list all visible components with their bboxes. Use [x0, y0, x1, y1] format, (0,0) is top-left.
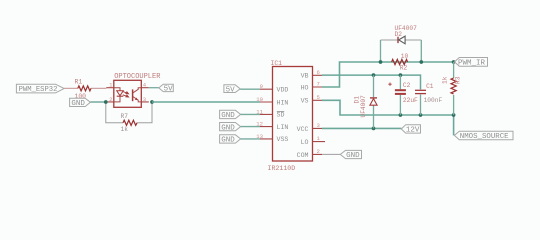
svg-text:GND: GND — [346, 152, 360, 160]
svg-text:LIN: LIN — [277, 124, 289, 131]
svg-text:100nF: 100nF — [424, 97, 443, 104]
wire D2 loop verticals — [381, 40, 422, 62]
svg-text:1k: 1k — [121, 126, 129, 133]
overline SD — [277, 111, 284, 113]
resistor R2 — [392, 53, 409, 72]
optocoupler light arrows — [123, 92, 129, 97]
op IC1 right pin stubs — [313, 75, 326, 154]
svg-text:R1: R1 — [75, 79, 83, 86]
junction gate row D2 right — [419, 60, 423, 64]
svg-text:C1: C1 — [426, 83, 434, 90]
svg-text:2: 2 — [317, 148, 320, 155]
svg-text:2: 2 — [109, 96, 112, 103]
svg-text:R7: R7 — [121, 113, 129, 120]
svg-text:5V: 5V — [226, 86, 236, 94]
ground GND flag at SD — [220, 110, 241, 120]
wire VCC 12V row — [322, 127, 401, 129]
junction VB C2 — [399, 73, 403, 77]
svg-text:HO: HO — [301, 84, 309, 91]
junction opto pin2 node — [104, 100, 108, 104]
wire HO to gate row — [322, 62, 455, 87]
svg-text:COM: COM — [297, 152, 309, 159]
svg-text:13: 13 — [256, 133, 263, 140]
ground GND flag left — [70, 98, 91, 108]
resistor R3 — [441, 76, 461, 94]
wire GND to SD — [241, 113, 260, 115]
wire COM to GND — [322, 153, 340, 155]
svg-text:SD: SD — [277, 112, 285, 119]
junction bus C1 — [419, 113, 423, 117]
wire D2 top — [381, 39, 422, 41]
svg-text:VS: VS — [301, 98, 309, 105]
ground GND flag at LIN — [220, 123, 241, 133]
wire opto pin3 to HIN — [152, 101, 260, 103]
ground GND flag at VSS — [220, 135, 241, 145]
svg-text:1k: 1k — [441, 76, 448, 84]
pin names IC1 right — [297, 73, 309, 159]
ground GND flag at COM — [340, 150, 361, 160]
junction VB D1 — [372, 73, 376, 77]
svg-text:LO: LO — [301, 139, 309, 146]
capacitor C2 — [388, 82, 418, 104]
svg-text:IR2110D: IR2110D — [268, 165, 296, 172]
wire R7 loop — [106, 102, 152, 123]
junction bus R3 — [452, 113, 456, 117]
svg-text:7: 7 — [317, 81, 320, 88]
op IC1 left pin stubs — [260, 89, 273, 139]
svg-text:5V: 5V — [164, 86, 174, 94]
wire GND to LIN — [241, 126, 260, 128]
capacitor C1 column wires — [420, 95, 422, 116]
svg-text:PWM_ESP32: PWM_ESP32 — [19, 86, 58, 94]
svg-text:C2: C2 — [403, 82, 411, 89]
resistor R7 — [121, 113, 138, 133]
svg-text:GND: GND — [221, 112, 235, 120]
power 5V flag at IC1 VDD — [224, 85, 240, 95]
capacitor C2 column wires — [399, 75, 401, 115]
diode D1 UF4007 — [353, 95, 377, 118]
svg-text:VB: VB — [301, 73, 309, 80]
wire GND to optocoupler pin2 — [90, 101, 105, 103]
wire R3 leads — [453, 62, 455, 115]
svg-text:12: 12 — [256, 121, 263, 128]
pin names IC1 left — [277, 87, 289, 144]
svg-text:GND: GND — [71, 100, 85, 108]
wire D1 column — [373, 75, 375, 128]
wire VB row — [322, 75, 421, 89]
svg-text:3: 3 — [317, 122, 320, 129]
svg-text:OPTOCOUPLER: OPTOCOUPLER — [114, 73, 161, 81]
svg-text:9: 9 — [260, 83, 263, 90]
resistor R1 — [64, 79, 106, 100]
capacitor C1 — [415, 83, 442, 104]
svg-text:VDD: VDD — [277, 87, 289, 94]
svg-text:11: 11 — [256, 108, 263, 115]
diode D2 — [395, 25, 418, 44]
junction bus C2 — [399, 113, 403, 117]
optocoupler OK1 box — [114, 80, 142, 107]
svg-text:VSS: VSS — [277, 136, 289, 143]
svg-text:12V: 12V — [406, 127, 420, 135]
svg-text:GND: GND — [221, 137, 235, 145]
optocoupler LED — [114, 88, 124, 102]
junction gate row D2 left — [379, 60, 383, 64]
junction VCC D1 — [372, 127, 376, 131]
optocoupler OK1 pin stubs — [106, 88, 149, 102]
wire VS to source bus — [322, 100, 454, 135]
node NMOS_SOURCE flag — [454, 131, 513, 141]
wire opto pin4 to 5V — [149, 87, 159, 89]
power 5V flag at optocoupler — [159, 84, 174, 93]
svg-text:VCC: VCC — [297, 126, 309, 133]
node PWM_IR flag — [455, 58, 488, 68]
svg-text:5: 5 — [317, 94, 320, 101]
svg-text:IC1: IC1 — [271, 60, 283, 67]
svg-text:PWM_IR: PWM_IR — [458, 60, 486, 68]
power 12V flag — [401, 125, 420, 135]
svg-text:UF4007: UF4007 — [360, 95, 367, 118]
svg-text:6: 6 — [317, 69, 320, 76]
op-amp IC1 IR2110D box — [273, 67, 313, 162]
svg-text:HIN: HIN — [277, 99, 289, 106]
junction gate row R3 — [452, 60, 456, 64]
svg-text:22uF: 22uF — [403, 97, 418, 104]
svg-text:R2: R2 — [400, 65, 408, 72]
pin numbers IC1 right 6 7 5 3 1 2 — [317, 69, 321, 155]
svg-text:3: 3 — [143, 96, 146, 103]
wire GND to VSS — [241, 138, 260, 140]
svg-text:NMOS_SOURCE: NMOS_SOURCE — [460, 133, 509, 141]
wire 5V to VDD — [240, 88, 260, 90]
node PWM_ESP32 flag — [16, 84, 64, 94]
optocoupler pin numbers 1 2 4 3 — [109, 82, 113, 103]
junction opto pin3 node — [150, 100, 154, 104]
pin numbers IC1 left 9 10 11 12 13 — [256, 83, 263, 140]
svg-text:D2: D2 — [395, 31, 403, 38]
svg-text:10: 10 — [256, 96, 263, 103]
svg-text:10: 10 — [401, 53, 409, 60]
optocoupler phototransistor — [133, 88, 142, 102]
svg-text:GND: GND — [221, 124, 235, 132]
svg-text:R3: R3 — [455, 76, 462, 84]
